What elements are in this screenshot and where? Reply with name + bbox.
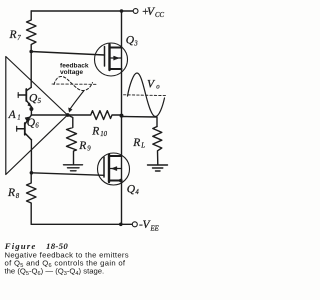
+VCC label (142, 6, 165, 19)
Q6 label (27, 117, 40, 130)
wire Q6 collector down (30, 140, 32, 173)
resistor RL (153, 127, 162, 165)
wire Q3 gate line (31, 52, 104, 56)
svg-text:A: A (8, 109, 17, 121)
svg-text:R: R (7, 187, 15, 199)
op-amp A1 triangle (6, 57, 68, 175)
transistor Q5 (18, 87, 31, 107)
svg-text:1: 1 (17, 115, 20, 122)
svg-text:R: R (9, 29, 17, 41)
node R7 bottom junction (29, 50, 33, 54)
-VEE label (139, 219, 160, 232)
wire R7 to Q5 collector (30, 52, 32, 88)
transistor Q6 (17, 115, 32, 140)
svg-text:9: 9 (87, 146, 91, 153)
svg-text:10: 10 (100, 131, 107, 138)
svg-text:3: 3 (133, 40, 138, 47)
svg-text:8: 8 (16, 193, 20, 200)
caption line 3 (5, 266, 105, 277)
resistor R9 (67, 115, 77, 164)
ground R9 (64, 165, 83, 171)
wire emitter junction vertical (30, 107, 32, 115)
wire output to RL (122, 117, 158, 127)
feedback voltage annotation text (60, 62, 89, 76)
node Q4 gate junction (30, 171, 34, 175)
node feedback node (66, 113, 70, 117)
caption figure number (4, 241, 69, 251)
node R10 rail junction (120, 114, 124, 118)
A1 label (8, 109, 21, 122)
transistor Q3 (95, 43, 128, 76)
caption line 1 (5, 250, 129, 259)
R8 label (7, 187, 20, 200)
resistor R8 (27, 173, 37, 225)
-VEE terminal (132, 222, 137, 227)
svg-text:EE: EE (150, 225, 160, 232)
svg-text:o: o (156, 84, 160, 91)
Vo waveform (124, 73, 167, 117)
wire emitters to feedback node (31, 114, 67, 116)
svg-text:7: 7 (17, 35, 21, 42)
svg-text:6: 6 (35, 123, 39, 130)
feedback arrow (69, 91, 85, 113)
caption line 2 (5, 258, 126, 269)
svg-text:CC: CC (155, 12, 165, 19)
svg-text:L: L (140, 143, 145, 150)
resistor R10 (68, 111, 122, 120)
node top rail junction (120, 9, 124, 13)
R9 label (78, 140, 91, 153)
svg-text:R: R (132, 137, 140, 149)
svg-text:R: R (91, 126, 99, 138)
node bottom rail junction (119, 223, 123, 227)
svg-text:R: R (78, 140, 86, 152)
svg-text:voltage: voltage (60, 69, 83, 76)
svg-text:5: 5 (38, 98, 42, 105)
+VCC terminal (123, 9, 138, 14)
RL label (132, 137, 145, 150)
wire top rail (31, 10, 121, 12)
Q4 label (127, 184, 140, 197)
Q5 label (29, 93, 42, 106)
wire Q4 gate line (31, 173, 104, 176)
ground RL (148, 165, 168, 171)
node Q4 source junction (119, 179, 123, 183)
R10 label (91, 126, 107, 139)
transistor Q4 (98, 153, 130, 185)
svg-text:4: 4 (135, 189, 139, 196)
Vo label (147, 79, 160, 91)
node Q5-Q6 emitter junction (29, 107, 33, 111)
Q3 label (126, 35, 139, 48)
feedback waveform dashed (52, 76, 96, 90)
R7 label (9, 29, 22, 42)
wire bottom rail (31, 223, 132, 225)
wire right rail (121, 11, 123, 224)
resistor R7 (27, 11, 37, 52)
